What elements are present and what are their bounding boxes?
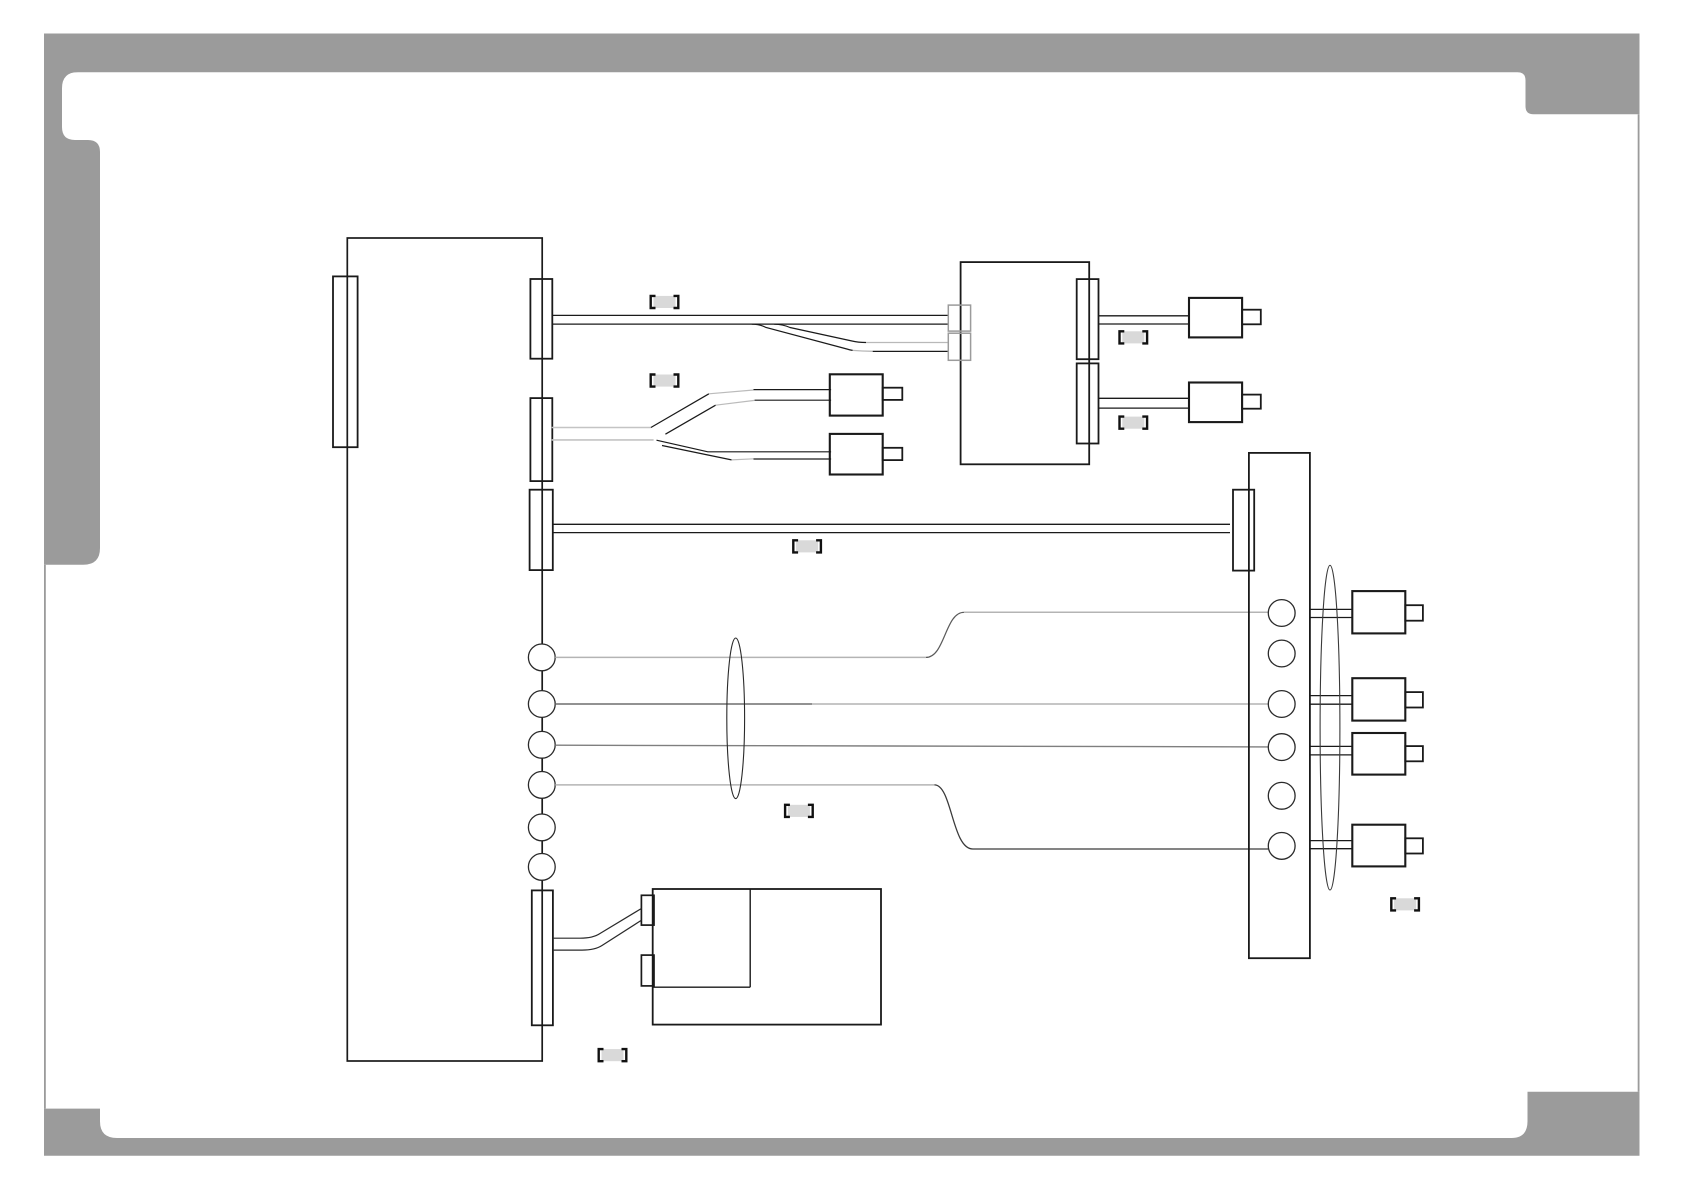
top-right box left connector 2 (gray)	[948, 333, 970, 360]
plug box TR2	[1189, 383, 1242, 423]
label tag 2	[651, 375, 679, 387]
right plug box RP4	[1352, 825, 1405, 867]
board circle L4	[528, 772, 555, 799]
label tag 5	[793, 540, 821, 552]
power supply inner divider vertical	[749, 889, 751, 987]
stub pair S4	[1310, 841, 1352, 849]
board circle L6	[528, 854, 555, 881]
label tag 8	[599, 1049, 627, 1061]
plug box PL2 nub	[883, 448, 903, 460]
right plug RP2 nub	[1405, 692, 1423, 707]
wire W2	[555, 703, 812, 705]
power box left connector 1	[641, 895, 654, 925]
main board (large box)	[347, 238, 542, 1061]
power box left connector 2	[641, 955, 654, 986]
top-right box right connector 2	[1077, 363, 1099, 443]
right box left connector	[1233, 490, 1254, 571]
connector D (bottom right of main board)	[532, 890, 553, 1025]
board circle L2	[528, 691, 555, 718]
plug box TR1	[1189, 298, 1242, 338]
wire W1 (gray, S-curve up)	[555, 656, 926, 658]
right circle R1	[1268, 600, 1295, 627]
cable lens ellipse (left)	[727, 638, 745, 799]
right plug box RP1	[1352, 591, 1405, 633]
right plug RP1 nub	[1405, 605, 1423, 621]
label tag 6	[785, 805, 813, 817]
top-right box	[961, 262, 1090, 464]
connector A (top right of main board)	[530, 279, 552, 359]
top-right box right connector 1	[1077, 279, 1099, 359]
plug box PL1 nub	[883, 388, 903, 400]
Y-cable stem from connector B	[552, 428, 654, 440]
wire pair to plug TR2	[1099, 398, 1190, 408]
plug box TR1 nub	[1242, 310, 1261, 325]
wire W3	[555, 745, 1268, 747]
right plug RP3 nub	[1405, 746, 1423, 761]
cable lens ellipse (right, large)	[1320, 565, 1340, 890]
wire curve branch lower	[752, 324, 853, 350]
wire pair C (long)	[553, 524, 1230, 532]
label tag 7	[1391, 898, 1419, 910]
label tag 4	[1120, 417, 1148, 429]
right circle R5	[1268, 782, 1295, 809]
right circle R4	[1268, 734, 1295, 761]
right circle R6	[1268, 833, 1295, 860]
connector C	[530, 490, 553, 570]
label tag 1	[651, 296, 679, 308]
right tall box	[1249, 453, 1310, 958]
cable band from connector D line 2	[553, 920, 642, 950]
right plug box RP2	[1352, 678, 1405, 720]
wire pair to plug TR1	[1099, 316, 1190, 324]
plug box TR2 nub	[1242, 395, 1261, 409]
wire curve branch upper	[774, 324, 866, 342]
right circle R3	[1268, 691, 1295, 718]
stub pair S1	[1310, 609, 1352, 617]
plug box PL1	[830, 374, 883, 415]
cable band from connector D line 1	[553, 909, 642, 939]
label tag 3	[1120, 331, 1148, 343]
page frame right edge thin line	[1638, 114, 1640, 1092]
board circle L1	[528, 644, 555, 671]
page frame bottom bar with bottom tabs	[44, 1092, 1640, 1156]
Y-cable lower branch	[657, 440, 832, 452]
board circle L5	[528, 814, 555, 841]
wire pair A to top-right box	[552, 315, 948, 324]
page frame left edge thin line	[44, 565, 46, 1109]
page frame left strip and left tab	[44, 72, 100, 565]
wire W4 (gray then black S-curve down)	[555, 784, 934, 786]
stub pair S2	[1310, 696, 1352, 705]
top-right box left connector 1 (gray)	[948, 305, 970, 331]
right circle R2	[1268, 640, 1295, 667]
Y-cable upper branch	[651, 394, 709, 428]
right plug box RP3	[1352, 733, 1405, 775]
power supply box	[653, 889, 881, 1025]
page frame top bar with top-right tab	[44, 34, 1640, 115]
board circle L3	[528, 731, 555, 758]
stub pair S3	[1310, 746, 1352, 755]
power supply inner divider horizontal	[653, 986, 751, 988]
plug box PL2	[830, 434, 883, 475]
main board left connector	[333, 276, 358, 447]
connector B (middle right of main board)	[530, 398, 552, 481]
right plug RP4 nub	[1405, 838, 1423, 853]
